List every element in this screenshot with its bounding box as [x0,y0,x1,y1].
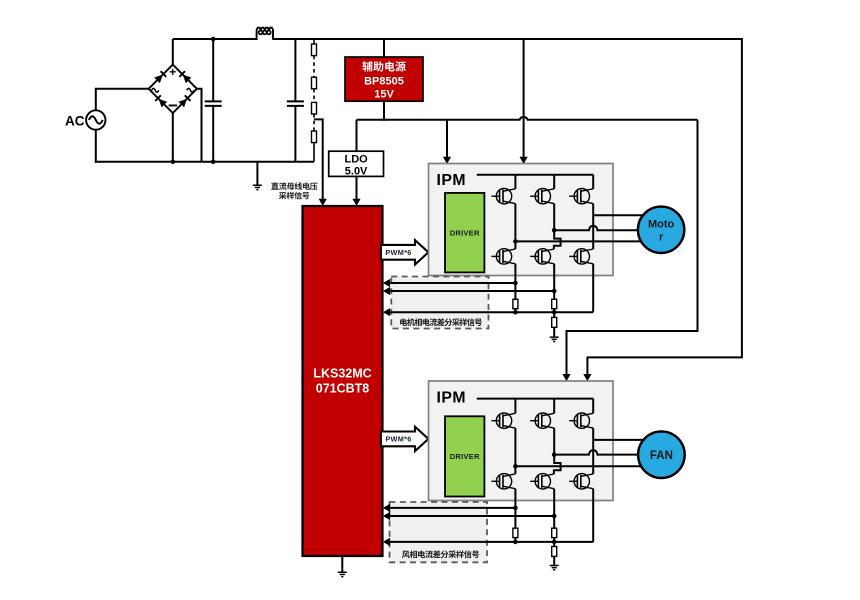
15V rail [357,117,698,120]
label: DC bus voltage sampling signal [271,182,317,190]
wire AC bottom to ground rail [95,130,97,163]
transistor Q7 (IPM2 high-side 1) [491,413,515,428]
DC bus line inside IPM1 [477,174,593,176]
wire IPM1 leg3 drain [592,175,594,189]
node IPM2 phase U output [513,464,518,469]
ground (IPM2 shunts) [550,565,559,571]
wire IPM2 leg2 midpoint upper [553,428,555,455]
svg-text:+: + [169,65,176,79]
wire common sense node line [390,311,594,313]
svg-text:071CBT8: 071CBT8 [316,381,370,395]
wire AC to bridge left vertex [96,89,149,111]
wire IPM1 leg2 midpoint upper [553,204,555,231]
node IPM2 shunt1 top tap [513,506,518,511]
wire IPM2 leg2 drain [553,399,555,414]
svg-text:BP8505: BP8505 [364,75,404,87]
DRIVER block (IPM2) [445,416,484,496]
transistor Q3 (IPM1 high-side 2) [530,189,554,204]
wire sense line V (fan) [390,515,555,517]
ground (input stage) [253,185,262,191]
transistor Q4 (IPM1 low-side 2) [530,249,554,264]
svg-text:5.0V: 5.0V [345,166,368,178]
svg-text:15V: 15V [374,89,394,101]
wire rail to aux supply [383,39,385,57]
wire 15V to IPM2 [567,120,698,375]
wire IPM1 leg2 jog around phase U line [554,230,561,249]
capacitor C1 [205,39,222,162]
transistor Q9 (IPM2 high-side 2) [530,413,554,428]
AC source V1 [65,110,106,129]
node IPM2 phase V output [552,452,557,457]
wire ground stub [256,162,258,185]
MCU U1 LKS32MC071CBT8 [303,206,383,556]
transistor Q8 (IPM2 low-side 1) [491,474,515,489]
wire sense line V [390,290,555,292]
svg-text:LKS32MC: LKS32MC [313,366,371,380]
wire shunt1 to node [514,309,516,313]
node IPM2 shunt2 top tap [552,514,557,519]
svg-text:PWM*6: PWM*6 [385,248,411,257]
wire IPM1 leg2 drain [553,175,555,189]
aux power supply BP8505 [345,57,423,101]
node IPM1 phase V output [552,228,557,233]
DC bus line inside IPM2 [477,398,593,400]
svg-text:IPM: IPM [437,390,467,407]
PWM*6 arrow to IPM1 [381,240,429,264]
wire IPM2 leg1 source down [514,489,516,529]
wire sense line U [390,282,516,284]
wire IPM1 leg3 midpoint / phase W output [592,204,594,249]
wire shunt2 to node [553,309,555,313]
resistor divider R1-R4 (DC bus sense) [312,39,317,162]
PWM*6 arrow to IPM2 [381,427,429,451]
wire IPM1 leg2 source down [553,264,555,300]
svg-text:AC: AC [65,113,85,128]
svg-text:Moto: Moto [648,218,675,230]
transistor Q2 (IPM1 low-side 1) [491,249,515,264]
wire aux supply to 15V rail [383,101,385,121]
wire IPM1 leg1 midpoint [514,204,516,249]
svg-text:DRIVER: DRIVER [450,452,480,461]
svg-text:DRIVER: DRIVER [450,228,480,237]
svg-text:IPM: IPM [437,172,467,189]
wire LDO to MCU [356,176,358,199]
wire IPM2 leg3 drain [592,399,594,414]
transistor Q1 (IPM1 high-side 1) [491,189,515,204]
capacitor C2 [287,39,304,162]
resistor R10 to ground [553,542,555,547]
dashed box: motor phase current sense signals [391,277,488,329]
wire shunt to node [553,538,555,542]
shunt resistor R8 [513,528,518,537]
svg-text:PWM*6: PWM*6 [385,435,411,444]
wire IPM1 leg3 source down to common node [592,264,594,312]
wire DC bus to IPM2 [587,39,742,375]
wire 15V rail to LDO [356,120,358,151]
wire MCU to ground [341,556,343,572]
transistor Q6 (IPM1 low-side 3) [569,249,593,264]
resistor R7 to ground [553,312,555,317]
shunt resistor R5 [513,299,518,308]
motor M1 [638,207,684,253]
transistor Q10 (IPM2 low-side 2) [530,474,554,489]
wire IPM2 leg1 drain [514,399,516,414]
node IPM1 shunt2 top tap [552,289,557,294]
wire DC bus to IPM1 [523,39,525,158]
wire IPM1 leg1 source down [514,264,516,300]
wire bridge right vertex down to ground rail [197,89,202,162]
junction C1 bottom [211,159,216,164]
wire bridge top vertex to DC+ rail [172,39,174,65]
transistor Q5 (IPM1 high-side 3) [569,189,593,204]
DC+ top rail (right of inductor) [273,38,743,40]
shunt resistor R9 [552,528,557,537]
IPM module (IPM1) [429,164,614,276]
junction C1 top [211,37,216,42]
wire shunt to node [514,538,516,542]
transistor Q12 (IPM2 low-side 3) [569,474,593,489]
DRIVER block (IPM1) [445,193,484,273]
ground rail (bottom) [95,161,314,163]
wire sense line U (fan) [390,507,516,509]
ground (MCU) [338,572,347,578]
LDO 5.0V [329,151,384,176]
wire 15V to IPM1 [446,120,448,158]
bridge rectifier D1-D4 [149,65,197,113]
node IPM1 shunt1 top tap [513,281,518,286]
wire divider tap to MCU (DC bus voltage sense) [314,119,323,199]
dashed box: fan phase current sense signals [390,502,488,562]
svg-text:LDO: LDO [344,153,368,165]
wire common sense node line (fan) [390,541,594,543]
junction bridge bottom / rail [171,159,176,164]
transistor Q11 (IPM2 high-side 3) [569,413,593,428]
node IPM1 phase U output [513,239,518,244]
inductor L1 [257,27,273,39]
wire bridge bottom vertex to ground rail [172,113,174,162]
wire IPM2 leg3 source down to common node [592,489,594,542]
svg-text:r: r [659,231,664,243]
wire IPM2 leg2 source down [553,489,555,529]
fan M2 [638,431,685,478]
IPM module (IPM2) [429,381,614,501]
wire IPM2 leg2 jog around phase U line [554,455,561,474]
DC+ top rail (left of inductor) [173,38,258,40]
shunt resistor R6 [552,299,557,308]
svg-text:FAN: FAN [650,450,673,462]
wire IPM2 leg1 midpoint [514,428,516,474]
wire IPM1 leg1 drain [514,175,516,189]
ground (IPM1 shunts) [550,336,559,342]
wire IPM2 leg3 midpoint / phase W output [592,428,594,474]
